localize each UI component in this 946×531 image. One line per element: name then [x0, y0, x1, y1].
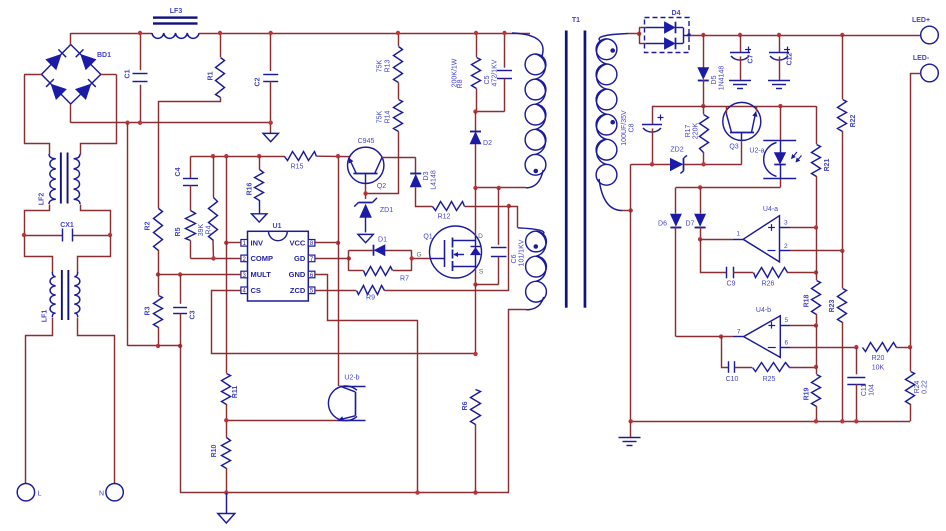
svg-text:R18: R18 — [804, 294, 811, 307]
svg-text:75K: 75K — [377, 110, 384, 123]
svg-text:6: 6 — [785, 340, 789, 347]
svg-text:G: G — [416, 252, 421, 259]
svg-text:472/1KV: 472/1KV — [492, 59, 499, 86]
svg-text:Q2: Q2 — [377, 183, 386, 190]
svg-text:2: 2 — [784, 243, 788, 250]
svg-text:BD1: BD1 — [97, 52, 111, 59]
svg-text:R20: R20 — [872, 355, 885, 362]
svg-text:R5: R5 — [175, 227, 182, 236]
svg-text:ZD2: ZD2 — [670, 147, 683, 154]
svg-text:75K: 75K — [377, 59, 384, 72]
svg-text:100UF/35V: 100UF/35V — [621, 110, 628, 146]
svg-text:104: 104 — [869, 384, 876, 396]
svg-text:Q1: Q1 — [423, 234, 432, 241]
svg-text:U4-b: U4-b — [756, 307, 771, 314]
svg-text:C12: C12 — [787, 52, 794, 65]
svg-text:R2: R2 — [145, 221, 152, 230]
svg-text:C1: C1 — [125, 69, 132, 78]
svg-text:R14: R14 — [385, 110, 392, 123]
svg-text:220K: 220K — [693, 123, 700, 140]
svg-text:GD: GD — [294, 254, 306, 263]
svg-text:L4148: L4148 — [431, 170, 438, 190]
svg-text:U1: U1 — [273, 223, 282, 230]
svg-text:1N4148: 1N4148 — [719, 66, 726, 91]
svg-text:C5: C5 — [484, 75, 491, 84]
svg-text:R11: R11 — [232, 386, 239, 399]
svg-text:R16: R16 — [247, 182, 254, 195]
svg-text:CS: CS — [251, 286, 261, 295]
svg-text:R21: R21 — [824, 158, 831, 171]
svg-text:ZD1: ZD1 — [380, 207, 393, 214]
svg-text:ZCD: ZCD — [290, 286, 306, 295]
svg-text:1: 1 — [736, 231, 740, 238]
svg-text:D5: D5 — [711, 75, 718, 84]
svg-text:LF2: LF2 — [39, 193, 46, 206]
svg-text:3: 3 — [784, 220, 788, 227]
svg-text:Q3: Q3 — [729, 144, 738, 151]
svg-text:COMP: COMP — [251, 254, 274, 263]
svg-text:C945: C945 — [358, 138, 375, 145]
svg-text:R17: R17 — [685, 124, 692, 137]
svg-text:C4: C4 — [175, 167, 182, 176]
svg-text:D3: D3 — [423, 171, 430, 180]
svg-text:MULT: MULT — [251, 270, 272, 279]
svg-text:R24: R24 — [914, 380, 921, 393]
svg-text:R7: R7 — [400, 276, 409, 283]
svg-text:C9: C9 — [727, 281, 736, 288]
svg-text:VCC: VCC — [289, 239, 305, 248]
svg-text:LED-: LED- — [913, 55, 930, 62]
svg-text:R23: R23 — [829, 299, 836, 312]
svg-text:D6: D6 — [658, 221, 667, 228]
svg-text:R10: R10 — [211, 444, 218, 457]
svg-text:N: N — [99, 491, 104, 498]
svg-text:CX1: CX1 — [60, 222, 74, 229]
svg-text:R12: R12 — [438, 214, 451, 221]
svg-text:C2: C2 — [255, 77, 262, 86]
svg-text:R4: R4 — [206, 225, 213, 234]
svg-text:R9: R9 — [366, 295, 375, 302]
svg-text:10K: 10K — [872, 365, 885, 372]
svg-text:101/1KV: 101/1KV — [519, 239, 526, 266]
svg-text:L: L — [38, 491, 42, 498]
svg-text:INV: INV — [251, 239, 264, 248]
svg-text:LF1: LF1 — [42, 310, 49, 323]
svg-text:C10: C10 — [726, 376, 739, 383]
svg-text:R13: R13 — [385, 59, 392, 72]
svg-text:R15: R15 — [291, 164, 304, 171]
svg-text:R26: R26 — [762, 281, 775, 288]
svg-text:C6: C6 — [511, 254, 518, 263]
svg-text:39K: 39K — [198, 223, 205, 236]
svg-text:T1: T1 — [572, 17, 580, 24]
svg-text:D: D — [478, 233, 483, 240]
svg-text:0.22: 0.22 — [922, 380, 929, 394]
svg-text:R8: R8 — [457, 79, 464, 88]
svg-text:C3: C3 — [190, 310, 197, 319]
svg-text:D4: D4 — [672, 10, 681, 17]
svg-text:S: S — [479, 269, 484, 276]
svg-text:5: 5 — [785, 317, 789, 324]
svg-text:R25: R25 — [763, 376, 776, 383]
svg-text:U2-b: U2-b — [344, 375, 359, 382]
svg-text:R3: R3 — [145, 306, 152, 315]
svg-text:D2: D2 — [483, 140, 492, 147]
svg-text:D7: D7 — [686, 221, 695, 228]
svg-text:R1: R1 — [208, 71, 215, 80]
svg-text:LF3: LF3 — [170, 8, 183, 15]
svg-text:C7: C7 — [748, 54, 755, 63]
svg-text:7: 7 — [737, 329, 741, 336]
svg-text:C8: C8 — [629, 123, 636, 132]
svg-text:LED+: LED+ — [912, 17, 930, 24]
svg-text:R19: R19 — [804, 387, 811, 400]
svg-text:R22: R22 — [850, 114, 857, 127]
svg-text:U4-a: U4-a — [763, 206, 778, 213]
svg-text:C11: C11 — [861, 384, 868, 396]
svg-text:GND: GND — [289, 270, 306, 279]
svg-text:D1: D1 — [378, 237, 387, 244]
svg-text:R6: R6 — [462, 401, 469, 410]
svg-text:U2-a: U2-a — [749, 148, 764, 155]
